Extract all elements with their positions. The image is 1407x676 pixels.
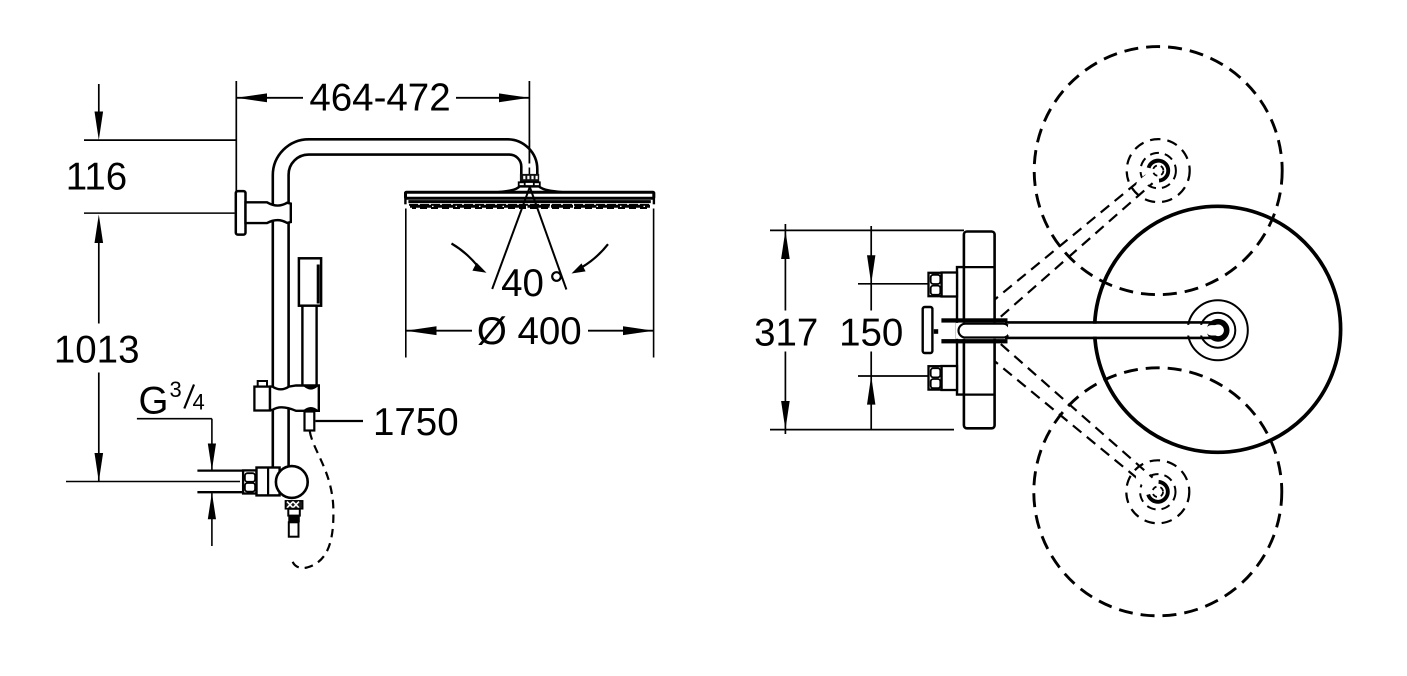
dimension 464-472 arrow left — [236, 93, 267, 102]
dimension 317 extension lines — [770, 229, 964, 231]
hand shower head block — [299, 258, 321, 305]
dimension 464-472 extension line left — [235, 81, 237, 191]
arm thick band top — [941, 318, 1007, 322]
head circle (solid) — [1095, 206, 1341, 452]
G 3/4 leader underline — [137, 418, 212, 420]
shower head face line — [408, 200, 650, 203]
top hub inner detail — [1153, 165, 1163, 175]
pivot dot — [934, 329, 938, 334]
hand shower hose connector — [305, 412, 315, 431]
top hub white channel — [1134, 164, 1165, 192]
arm interior over circles — [1008, 325, 1216, 336]
hand shower handle — [302, 306, 316, 387]
main hub outer circle — [1188, 300, 1248, 360]
shower head dome — [497, 186, 562, 192]
wall bracket arm — [246, 202, 291, 223]
shower head side edges — [404, 192, 406, 204]
upper supply nut — [929, 273, 942, 296]
bottom hub middle dashed circle — [1140, 474, 1175, 509]
bottom swivel position circle (dashed) — [1034, 368, 1282, 616]
dimension 464-472 extension line right — [528, 81, 530, 164]
wall bracket flange — [236, 191, 246, 235]
slider clamp dark crescent top — [303, 386, 319, 390]
G 3/4 arrow up — [208, 493, 216, 520]
valve circle (side view) — [276, 466, 308, 498]
dimension 464-472 arrow right — [499, 93, 529, 102]
lower arm position (dashed) edge B — [1001, 344, 1153, 478]
swivel angle line left — [492, 187, 530, 289]
arm slot white over body edges — [956, 323, 1008, 339]
label 1750 leader — [316, 420, 364, 422]
upper arm position (dashed) edge B — [1001, 183, 1153, 317]
diverter outlet stem — [289, 522, 299, 536]
svg-text:4: 4 — [193, 390, 205, 415]
arm edge lines — [1005, 321, 1216, 324]
dimension 150 vertical line — [870, 226, 872, 311]
svg-text:1750: 1750 — [373, 401, 459, 444]
upper supply boss — [942, 273, 958, 297]
swivel angle arc left — [452, 244, 479, 267]
G 3/4 vertical dimension line — [211, 419, 213, 470]
top swivel position circle (dashed) — [1034, 47, 1282, 295]
lower supply boss — [942, 366, 958, 390]
dimension 150 extension lines — [858, 283, 929, 285]
supply centerline — [66, 481, 240, 483]
svg-text:464-472: 464-472 — [309, 77, 450, 120]
valve body (side view) — [257, 468, 280, 496]
wall plate — [923, 307, 933, 353]
swivel angle line right — [530, 187, 567, 290]
top hub outer dashed circle — [1127, 139, 1190, 202]
shower head stem collar — [521, 182, 538, 187]
valve body (front view) — [964, 232, 995, 429]
dimension 116 arrow down — [95, 112, 104, 141]
dimension 116/1013 vertical line — [98, 84, 100, 113]
top hub dark ring — [1149, 161, 1169, 181]
main hub dark ring — [1210, 322, 1227, 339]
supply pipe edges — [197, 469, 244, 471]
slider clamp knob — [254, 387, 270, 411]
bottom hub white channel — [1134, 471, 1165, 499]
lower arm position (dashed) edge A — [976, 346, 1147, 486]
hand shower hose (dashed) — [292, 432, 334, 569]
dimension Ø400 arrows — [406, 326, 437, 335]
dimension Ø400 extension lines — [405, 209, 407, 358]
arm thick band bottom — [941, 339, 1007, 343]
diverter mid section — [288, 509, 300, 516]
lower supply nut — [929, 366, 942, 389]
extension line for 464-472 centerline dash in stem — [528, 140, 530, 164]
valve nut (side view) — [243, 470, 256, 493]
bottom hub dark ring — [1148, 482, 1168, 502]
bottom hub inner detail — [1153, 487, 1163, 497]
arm pill base — [959, 324, 1011, 338]
dimension 150 arrows — [867, 255, 875, 284]
main hub white slot — [1206, 325, 1223, 335]
shower head top plate — [406, 192, 654, 198]
shower head stem knurled nut — [520, 174, 539, 182]
bottom hub outer dashed circle — [1126, 460, 1189, 523]
extension line y=213 — [84, 212, 235, 214]
svg-text:Ø 400: Ø 400 — [477, 310, 582, 353]
G 3/4 arrow down — [208, 444, 216, 471]
svg-text:3: 3 — [170, 377, 182, 402]
slider clamp dark crescent bottom — [303, 407, 319, 411]
main hub middle circle — [1200, 313, 1235, 348]
shower head nozzle stipple band — [409, 204, 650, 206]
dimension 317 vertical line — [784, 224, 786, 311]
svg-text:40: 40 — [501, 262, 544, 305]
diverter knurled ring — [285, 501, 302, 509]
upper arm position (dashed) edge A — [976, 175, 1147, 315]
slider clamp body — [270, 386, 319, 411]
dimension 317 arrows — [781, 230, 790, 259]
svg-text:317: 317 — [754, 311, 818, 354]
shower rail pipe outer contour — [273, 139, 538, 470]
dimension 116/1013 arrow up — [95, 215, 104, 244]
dimension 464-472 line — [236, 97, 303, 99]
svg-text:G: G — [139, 380, 169, 423]
valve body mid-left band — [957, 267, 966, 395]
dimension Ø400 line — [406, 330, 472, 332]
shower rail pipe inner contour — [289, 155, 522, 470]
extension line y=140 — [84, 139, 236, 141]
swivel angle arc right — [582, 244, 609, 267]
svg-text:116: 116 — [66, 156, 127, 199]
dimension 1013 arrow down — [95, 453, 104, 482]
degree symbol — [552, 272, 561, 281]
svg-text:1013: 1013 — [54, 329, 140, 372]
svg-text:150: 150 — [839, 311, 903, 354]
arm white interior — [1005, 324, 1218, 337]
top hub middle dashed circle — [1141, 153, 1176, 188]
slider clamp knob tab — [258, 381, 267, 387]
